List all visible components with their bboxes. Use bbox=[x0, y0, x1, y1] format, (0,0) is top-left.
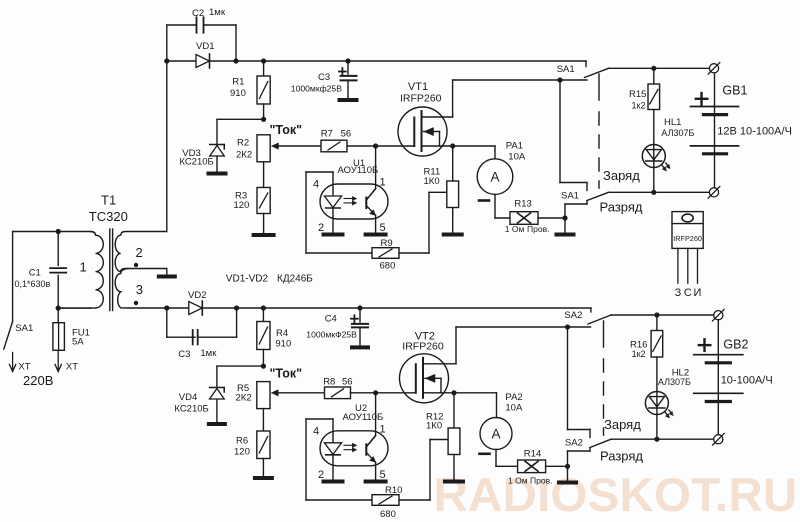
svg-text:С3: С3 bbox=[178, 349, 190, 360]
svg-text:А: А bbox=[490, 170, 499, 185]
svg-text:5: 5 bbox=[380, 469, 386, 481]
LED HL1 bbox=[642, 145, 665, 168]
node HL1 bottom node bbox=[651, 190, 656, 195]
wire to VD4 bbox=[217, 365, 264, 367]
svg-text:2: 2 bbox=[318, 469, 324, 481]
node Tok node top bbox=[261, 117, 266, 122]
wire SA1 lower fixed contact bbox=[559, 80, 561, 183]
transformer T1 core bbox=[109, 229, 111, 311]
svg-text:IRFP260: IRFP260 bbox=[400, 93, 442, 105]
svg-text:КС210Б: КС210Б bbox=[174, 404, 208, 415]
svg-text:4: 4 bbox=[313, 425, 319, 437]
svg-text:GB1: GB1 bbox=[722, 84, 747, 98]
LED HL2 bbox=[645, 392, 668, 415]
svg-text:1: 1 bbox=[380, 423, 386, 435]
svg-text:R2: R2 bbox=[237, 138, 249, 149]
node R15 top node bbox=[651, 66, 656, 71]
resistor R8 bbox=[325, 387, 351, 399]
ammeter PA2 bbox=[480, 418, 512, 450]
ground VD3 bbox=[209, 172, 226, 176]
node SA1 pole node bbox=[557, 77, 562, 82]
ground R14 bbox=[559, 481, 576, 485]
polarity dot winding 2 bbox=[134, 263, 138, 267]
wire charge bus bottom bbox=[611, 314, 714, 316]
node discharge node bottom bbox=[565, 464, 570, 469]
svg-text:SA2: SA2 bbox=[564, 310, 582, 321]
svg-text:1мк: 1мк bbox=[209, 7, 226, 18]
node Tok node bottom bbox=[261, 364, 266, 369]
ground R11 bbox=[444, 233, 462, 237]
wire R10 to R12 bbox=[399, 499, 430, 501]
capacitor C3 top channel bbox=[347, 61, 349, 74]
svg-text:2К2: 2К2 bbox=[236, 150, 252, 161]
wire PA2 to R14 bbox=[495, 450, 497, 467]
svg-text:1 Ом: 1 Ом bbox=[505, 224, 525, 234]
svg-text:А: А bbox=[491, 427, 500, 442]
terminal GB1 - bbox=[709, 188, 718, 197]
svg-text:1к2: 1к2 bbox=[632, 100, 646, 110]
wire source VT2 bbox=[423, 392, 497, 394]
node SA2 pole node bbox=[565, 324, 570, 329]
svg-text:HL1: HL1 bbox=[664, 117, 681, 128]
svg-text:R9: R9 bbox=[381, 238, 393, 249]
svg-text:XT: XT bbox=[18, 362, 30, 373]
switch SA2 mechanical link dashed bbox=[603, 321, 605, 347]
svg-text:1: 1 bbox=[80, 260, 87, 275]
svg-text:З: З bbox=[675, 287, 682, 299]
svg-text:XT: XT bbox=[66, 362, 78, 373]
wire bottom bus bbox=[202, 307, 591, 309]
wire top bus bbox=[210, 60, 587, 62]
svg-text:VD1: VD1 bbox=[196, 41, 214, 52]
svg-text:Пров.: Пров. bbox=[530, 476, 552, 486]
svg-text:АОУ110Б: АОУ110Б bbox=[338, 165, 379, 176]
terminal GB1 + bbox=[709, 64, 718, 73]
IRFP260 pin drain bbox=[687, 248, 689, 283]
diode VD1 bbox=[167, 60, 196, 62]
svg-text:1: 1 bbox=[380, 176, 386, 188]
optocoupler U1 bbox=[320, 184, 388, 219]
wire R13 to SA1 lower bbox=[538, 217, 565, 219]
switch SA1 upper blade bbox=[585, 68, 609, 77]
wire drain VT2 to SA2 bbox=[423, 363, 456, 365]
ground U2 pin 2 bbox=[324, 480, 343, 484]
svg-text:5: 5 bbox=[380, 222, 386, 234]
transformer T1 secondary winding 3 bbox=[115, 269, 189, 309]
wire charge bus top bbox=[609, 67, 710, 69]
IRFP260 package hole bbox=[682, 214, 693, 222]
polarity + GB1 bbox=[696, 98, 708, 100]
svg-text:И: И bbox=[694, 287, 702, 299]
IRFP260 pin gate bbox=[677, 248, 679, 283]
node C4 top bbox=[357, 305, 362, 310]
svg-text:R10: R10 bbox=[385, 485, 402, 496]
svg-text:910: 910 bbox=[275, 338, 291, 349]
terminal GB2 - bbox=[714, 435, 723, 444]
wire discharge bus bottom bbox=[611, 438, 714, 440]
node gate node VT2 bbox=[373, 390, 378, 395]
svg-text:1К0: 1К0 bbox=[426, 421, 442, 432]
node C3b right node bbox=[234, 305, 239, 310]
svg-text:R7: R7 bbox=[321, 129, 333, 140]
svg-text:2: 2 bbox=[318, 222, 324, 234]
wire drain VT1 to SA1 bbox=[422, 116, 453, 118]
svg-text:АЛ307Б: АЛ307Б bbox=[658, 377, 691, 387]
minus mark PA1 bbox=[479, 199, 489, 202]
ground R12 bbox=[445, 480, 463, 484]
svg-text:10-100А/Ч: 10-100А/Ч bbox=[721, 375, 773, 387]
svg-text:Заряд: Заряд bbox=[604, 417, 641, 432]
node C2/VD1 junction bbox=[233, 58, 238, 63]
resistor R7 bbox=[321, 140, 347, 152]
switch SA1 mechanical link dashed bbox=[598, 74, 600, 100]
svg-text:680: 680 bbox=[380, 261, 396, 272]
wire R7 to gate node bbox=[347, 145, 376, 147]
terminal GB2 + bbox=[714, 311, 723, 320]
wire source to PA2 bbox=[496, 393, 498, 418]
terminal XT right arrow bbox=[57, 350, 59, 371]
capacitor C1 bbox=[57, 232, 59, 266]
svg-text:R6: R6 bbox=[236, 436, 248, 447]
svg-text:120: 120 bbox=[234, 447, 250, 458]
node R16 top node bbox=[654, 312, 659, 317]
svg-text:5А: 5А bbox=[72, 337, 84, 348]
node winding3 bottom node bbox=[164, 305, 169, 310]
svg-text:SA1: SA1 bbox=[15, 323, 33, 334]
svg-text:2К2: 2К2 bbox=[236, 393, 252, 404]
capacitor C4 bbox=[359, 308, 361, 322]
svg-text:SA2: SA2 bbox=[565, 437, 583, 448]
svg-text:1 Ом: 1 Ом bbox=[508, 476, 528, 486]
potentiometer R2 bbox=[257, 135, 270, 162]
node R1 top bbox=[261, 58, 266, 63]
diode VD2 bbox=[189, 302, 203, 315]
ground discharge node top bbox=[564, 218, 566, 233]
wire U2 pin 2 to ground bbox=[332, 455, 334, 480]
wire mains bottom bbox=[58, 307, 91, 309]
ground U2 pin 5 bbox=[366, 480, 386, 484]
svg-text:IRFP260: IRFP260 bbox=[402, 341, 444, 353]
terminal XT left arrow bbox=[12, 353, 14, 372]
wire R14 to SA2 lower bbox=[546, 465, 568, 467]
svg-text:120: 120 bbox=[234, 200, 250, 211]
svg-text:С: С bbox=[684, 287, 692, 299]
wire U1 pin 4 loop bbox=[332, 172, 334, 195]
resistor R11 bbox=[452, 146, 454, 181]
wire gate lead VT1 bbox=[376, 145, 415, 147]
svg-text:220В: 220В bbox=[23, 373, 53, 388]
svg-text:R1: R1 bbox=[232, 77, 244, 88]
resistor R12 bbox=[453, 393, 455, 428]
node source node VT1 bbox=[450, 143, 455, 148]
svg-text:РА1: РА1 bbox=[506, 140, 523, 151]
svg-text:"Ток": "Ток" bbox=[270, 367, 303, 381]
capacitor C3 bottom (1mk) bbox=[166, 308, 168, 337]
svg-text:Пров.: Пров. bbox=[527, 224, 549, 234]
node VD1 anode bbox=[164, 58, 169, 63]
svg-text:С4: С4 bbox=[325, 314, 337, 325]
svg-text:R8: R8 bbox=[323, 377, 335, 388]
svg-text:680: 680 bbox=[380, 509, 396, 520]
ground U1 pin 2 bbox=[324, 233, 343, 237]
polarity dot winding 3 bbox=[134, 301, 138, 305]
ground VD4 bbox=[209, 422, 225, 426]
node R4 top bbox=[261, 305, 266, 310]
svg-text:Заряд: Заряд bbox=[603, 168, 640, 183]
resistor R1 bbox=[263, 61, 265, 76]
svg-text:VD1-VD2: VD1-VD2 bbox=[226, 273, 269, 284]
wire U2 pin 5 to ground bbox=[375, 462, 377, 479]
resistor R10 bbox=[372, 495, 399, 506]
svg-text:R13: R13 bbox=[514, 198, 531, 209]
shunt resistor R13 bbox=[510, 212, 538, 225]
svg-text:R15: R15 bbox=[629, 89, 646, 100]
zener VD4 bbox=[210, 387, 225, 389]
switch SA1 lower blade bbox=[564, 204, 566, 218]
wire SA2 fixed contact stub bbox=[590, 308, 592, 312]
ground R6 bbox=[255, 476, 272, 480]
battery GB2 bbox=[717, 320, 719, 435]
ammeter PA1 bbox=[477, 159, 513, 195]
wire winding2 top to VD1 node bbox=[166, 25, 168, 232]
svg-text:10А: 10А bbox=[508, 151, 526, 162]
svg-text:GB2: GB2 bbox=[723, 338, 748, 352]
wire gate node to opto pin 1 bbox=[375, 146, 377, 189]
optocoupler U2 bbox=[320, 431, 388, 466]
node C1 bottom bbox=[56, 306, 61, 311]
polarity + C4 bbox=[351, 318, 358, 320]
ground U1 pin 5 bbox=[366, 233, 386, 237]
minus mark PA2 bbox=[480, 452, 490, 455]
svg-text:Т1: Т1 bbox=[101, 193, 116, 208]
svg-text:10А: 10А bbox=[505, 403, 523, 414]
wire center tap to ground bbox=[166, 269, 168, 275]
node C3 top bbox=[345, 58, 350, 63]
resistor R6 bbox=[257, 431, 270, 459]
wire U1 pin 5 to ground bbox=[375, 216, 377, 233]
ground center tap bbox=[159, 275, 175, 279]
svg-text:С3: С3 bbox=[318, 72, 330, 83]
svg-text:VD4: VD4 bbox=[179, 392, 197, 403]
wire discharge bus top bbox=[609, 191, 710, 193]
node C1 top bbox=[56, 229, 61, 234]
transistor VT1 bbox=[398, 107, 447, 156]
wire U2 pin 4 loop bbox=[332, 419, 334, 442]
ground C4 bbox=[352, 345, 368, 349]
svg-text:Разряд: Разряд bbox=[600, 449, 643, 464]
shunt resistor R14 bbox=[518, 460, 546, 473]
svg-text:RADIOSKOT.RU: RADIOSKOT.RU bbox=[434, 469, 798, 522]
svg-text:SA1: SA1 bbox=[561, 191, 579, 202]
resistor R9 bbox=[372, 248, 399, 259]
ground discharge node bottom bbox=[567, 466, 569, 480]
svg-text:1мк: 1мк bbox=[200, 348, 217, 359]
switch SA2 lower blade bbox=[567, 451, 569, 466]
wiper arrow R2 bbox=[272, 143, 279, 149]
svg-text:1К0: 1К0 bbox=[424, 176, 440, 187]
polarity + C3 bbox=[339, 71, 346, 73]
svg-text:R4: R4 bbox=[276, 328, 288, 339]
ground R13 bbox=[557, 233, 574, 237]
svg-text:IRFP260: IRFP260 bbox=[673, 234, 702, 243]
svg-text:С2: С2 bbox=[192, 8, 204, 19]
svg-text:КС210Б: КС210Б bbox=[179, 157, 213, 168]
IRFP260 pin source bbox=[697, 248, 699, 283]
wire to VD3 bbox=[217, 118, 264, 120]
svg-text:АЛ307Б: АЛ307Б bbox=[661, 128, 694, 138]
wire U1 pin 2 to ground bbox=[332, 208, 334, 233]
wire PA1 to R13 bbox=[494, 194, 496, 218]
wire SA2 lower fixed contact bbox=[567, 327, 569, 430]
svg-text:1к2: 1к2 bbox=[632, 349, 646, 359]
svg-text:4: 4 bbox=[313, 178, 319, 190]
transformer T1 secondary winding 2 bbox=[115, 232, 167, 272]
svg-text:12В 10-100А/Ч: 12В 10-100А/Ч bbox=[717, 126, 792, 138]
svg-text:0,1*630в: 0,1*630в bbox=[15, 279, 51, 289]
svg-text:2: 2 bbox=[136, 245, 143, 260]
resistor R15 bbox=[653, 68, 655, 84]
wiper arrow R5 bbox=[271, 390, 278, 396]
wire gate node to opto pin 1 bbox=[375, 393, 377, 436]
svg-text:VD2: VD2 bbox=[188, 290, 206, 301]
wire SA1 fixed contact stub bbox=[585, 61, 587, 67]
resistor R16 bbox=[656, 315, 658, 331]
svg-text:КД246Б: КД246Б bbox=[277, 273, 313, 284]
svg-text:R14: R14 bbox=[524, 449, 541, 460]
resistor R3 bbox=[257, 188, 270, 214]
svg-text:56: 56 bbox=[342, 377, 353, 388]
node discharge node top bbox=[562, 215, 567, 220]
svg-text:С1: С1 bbox=[29, 268, 41, 279]
zener VD3 bbox=[210, 144, 225, 146]
wire source VT1 bbox=[422, 145, 496, 147]
node source node VT2 bbox=[451, 390, 456, 395]
svg-text:910: 910 bbox=[230, 88, 246, 99]
IRFP260 package outline bbox=[672, 212, 703, 249]
fuse FU1 bbox=[57, 308, 59, 323]
svg-text:1000мкФ25В: 1000мкФ25В bbox=[306, 330, 357, 340]
wire R9 to R11 bbox=[399, 252, 429, 254]
wire mains top bbox=[13, 231, 91, 233]
transformer T1 primary winding 1 bbox=[58, 232, 103, 309]
svg-text:АОУ110Б: АОУ110Б bbox=[343, 412, 384, 423]
node HL2 bottom node bbox=[654, 437, 659, 442]
svg-text:56: 56 bbox=[341, 129, 352, 140]
battery GB1 bbox=[714, 73, 716, 188]
wire source to PA1 bbox=[494, 146, 496, 159]
svg-text:VT1: VT1 bbox=[408, 81, 428, 93]
svg-text:ТС320: ТС320 bbox=[89, 209, 128, 224]
transistor VT2 bbox=[400, 354, 449, 403]
polarity + GB2 bbox=[699, 344, 711, 346]
resistor R4 bbox=[262, 308, 264, 322]
svg-text:3: 3 bbox=[136, 282, 143, 297]
node gate node VT1 bbox=[373, 143, 378, 148]
svg-text:"Ток": "Ток" bbox=[270, 123, 303, 137]
svg-text:Разряд: Разряд bbox=[600, 199, 643, 214]
wire gate lead VT2 bbox=[376, 392, 416, 394]
potentiometer R5 bbox=[257, 382, 270, 409]
switch SA1 mains bbox=[12, 232, 14, 322]
svg-text:SA1: SA1 bbox=[557, 64, 575, 75]
svg-text:1000мкф25В: 1000мкф25В bbox=[291, 83, 342, 93]
ground R3 bbox=[254, 233, 274, 237]
switch SA2 upper blade bbox=[588, 315, 611, 324]
ground C3 bbox=[340, 98, 357, 102]
wire R8 to gate node bbox=[351, 392, 376, 394]
svg-text:РА2: РА2 bbox=[505, 392, 522, 403]
capacitor C2 bbox=[167, 24, 197, 26]
